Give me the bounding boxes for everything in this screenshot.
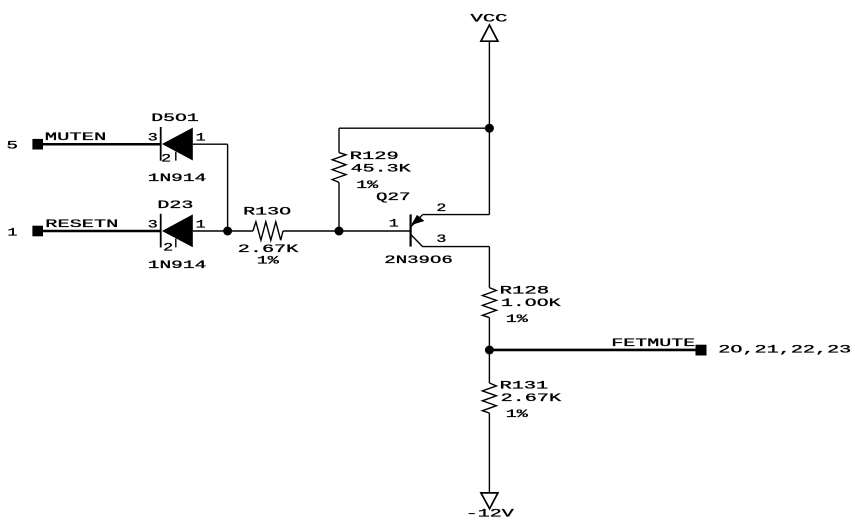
svg-text:1: 1	[196, 133, 207, 145]
svg-text:3: 3	[148, 133, 158, 145]
svg-text:R128: R128	[500, 285, 550, 297]
wire corner down to node A	[227, 144, 229, 231]
resistor R131	[482, 383, 496, 413]
node C junction dot	[485, 124, 494, 133]
svg-text:1N914: 1N914	[148, 260, 207, 272]
svg-text:2.67K: 2.67K	[501, 393, 562, 405]
resistor R130	[253, 222, 283, 240]
diode D501	[161, 127, 193, 161]
svg-text:45.3K: 45.3K	[351, 164, 412, 176]
port square RESETN	[32, 226, 43, 237]
power symbol VCC	[481, 25, 498, 41]
svg-text:1: 1	[7, 228, 18, 240]
wire FETMUTE	[489, 349, 695, 352]
svg-text:R131: R131	[500, 380, 549, 392]
port square MUTEN	[32, 139, 43, 150]
svg-text:D23: D23	[157, 200, 193, 212]
svg-text:R13O: R13O	[243, 207, 292, 219]
wire D23 anode to R130	[193, 230, 253, 232]
wire MUTEN input	[43, 143, 161, 146]
svg-text:2O,21,22,23: 2O,21,22,23	[718, 345, 851, 357]
svg-text:RESETN: RESETN	[45, 219, 118, 231]
transistor Q27 collector	[411, 235, 423, 247]
svg-text:R129: R129	[350, 151, 399, 163]
svg-text:1: 1	[196, 220, 207, 232]
svg-text:2: 2	[161, 154, 171, 166]
node A junction dot	[223, 227, 232, 236]
wire emitter to VCC line	[422, 214, 489, 216]
resistor R129	[332, 128, 346, 231]
wire R128 to R131	[488, 318, 490, 383]
node B junction dot	[335, 227, 344, 236]
wire RESETN input	[43, 230, 161, 233]
svg-text:2: 2	[436, 203, 446, 215]
svg-text:VCC: VCC	[471, 13, 509, 25]
transistor Q27 base bar	[410, 214, 412, 246]
wire VCC down to emitter	[488, 41, 490, 214]
svg-text:1N914: 1N914	[148, 173, 207, 185]
svg-text:-12V: -12V	[466, 509, 515, 521]
svg-text:3: 3	[436, 234, 446, 246]
svg-text:D5O1: D5O1	[151, 113, 199, 125]
svg-text:FETMUTE: FETMUTE	[611, 338, 696, 350]
wire collector right	[422, 246, 489, 248]
diode D23	[161, 214, 193, 248]
wire R130 to Q27 base	[283, 230, 411, 232]
svg-text:5: 5	[7, 141, 19, 153]
wire R131 down to -12V	[488, 413, 490, 493]
transistor Q27 emitter with arrow	[411, 215, 424, 227]
node FETMUTE junction dot	[485, 346, 494, 355]
svg-text:1: 1	[389, 218, 400, 230]
svg-text:1%: 1%	[506, 314, 529, 326]
port square FETMUTE	[696, 345, 707, 356]
svg-text:2: 2	[163, 242, 173, 254]
svg-text:2N39O6: 2N39O6	[384, 255, 453, 267]
svg-text:MUTEN: MUTEN	[45, 132, 107, 144]
power symbol -12V	[481, 493, 498, 509]
svg-text:3: 3	[148, 220, 158, 232]
wire collector down to R128	[488, 247, 490, 288]
svg-text:Q27: Q27	[376, 192, 411, 204]
wire R129 top to VCC line	[339, 127, 489, 129]
svg-text:1.OOK: 1.OOK	[501, 298, 561, 310]
svg-text:1%: 1%	[356, 180, 379, 192]
wire D501 anode to corner	[193, 143, 228, 145]
resistor R128	[482, 288, 496, 318]
svg-text:2.67K: 2.67K	[238, 244, 299, 256]
svg-text:1%: 1%	[506, 409, 529, 421]
svg-text:1%: 1%	[257, 255, 280, 267]
